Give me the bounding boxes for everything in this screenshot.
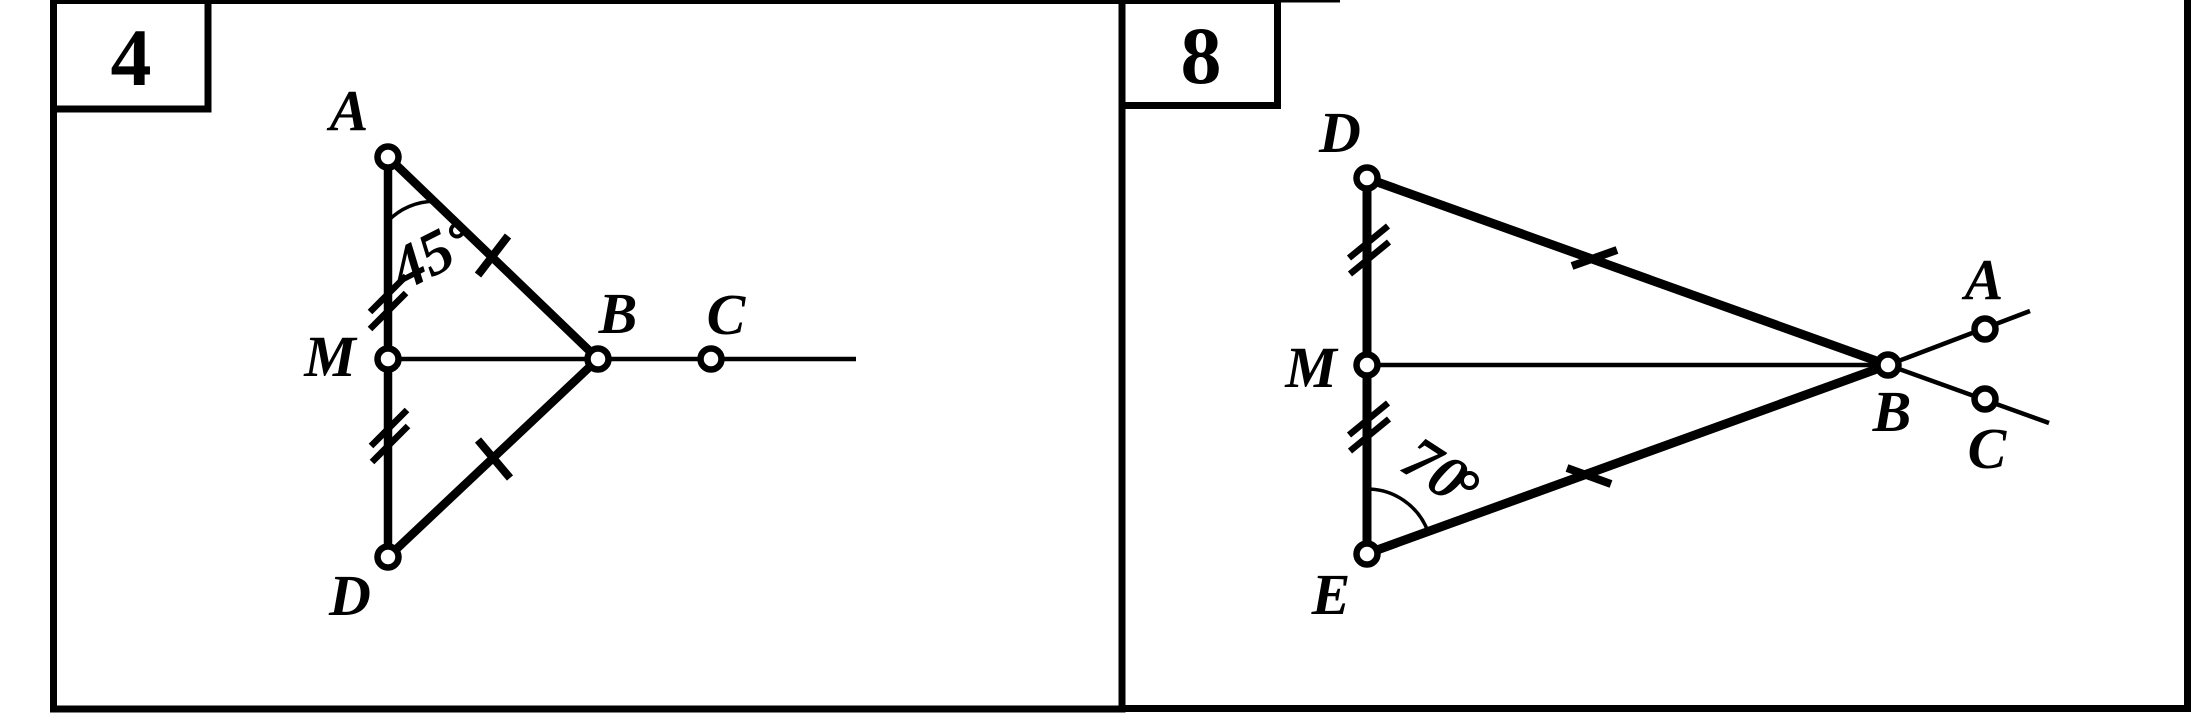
svg-text:A: A bbox=[1962, 247, 2004, 312]
svg-text:8: 8 bbox=[1181, 10, 1222, 101]
svg-text:B: B bbox=[598, 281, 638, 346]
svg-text:4: 4 bbox=[111, 12, 152, 103]
svg-text:C: C bbox=[707, 282, 747, 347]
svg-text:B: B bbox=[1872, 379, 1912, 444]
svg-text:D: D bbox=[328, 563, 371, 628]
svg-text:A: A bbox=[327, 78, 369, 143]
svg-text:M: M bbox=[303, 324, 358, 389]
svg-text:D: D bbox=[1318, 100, 1361, 165]
svg-text:C: C bbox=[1968, 416, 2008, 481]
svg-text:M: M bbox=[1284, 335, 1339, 400]
svg-text:E: E bbox=[1311, 562, 1351, 627]
